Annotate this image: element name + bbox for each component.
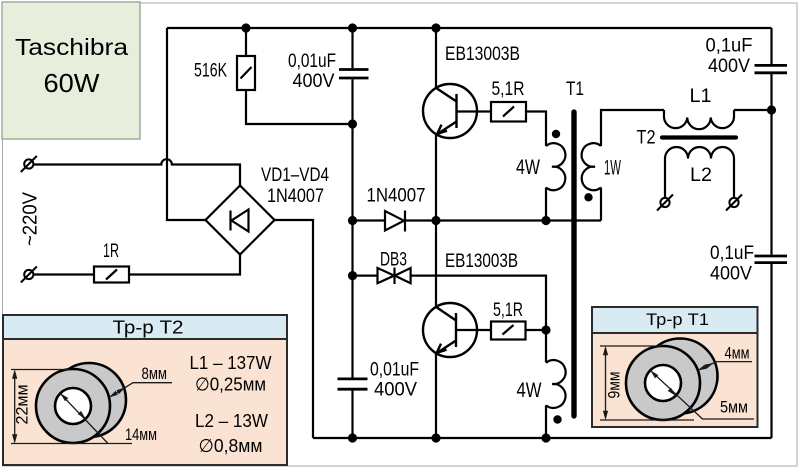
capacitor C2 0,01uF 400V xyxy=(338,379,368,389)
svg-text:Taschibra: Taschibra xyxy=(15,34,129,60)
node dot bottom rail 4W xyxy=(541,433,550,442)
svg-text:~220V: ~220V xyxy=(20,191,42,246)
svg-text:DB3: DB3 xyxy=(380,250,407,271)
wire 1W winding bottom riser xyxy=(600,188,602,221)
transformer T1 winding 4W lower xyxy=(546,360,566,408)
dimension 8mm xyxy=(111,383,173,397)
phasing dot 1W xyxy=(584,193,592,201)
wire node A to Q2 collector xyxy=(435,221,437,307)
terminal output left xyxy=(657,195,673,211)
transformer T1 winding 1W xyxy=(582,143,601,190)
diode VD5 1N4007 xyxy=(385,211,405,232)
svg-text:L1 – 137W: L1 – 137W xyxy=(190,352,272,373)
wire R2 to 4W upper winding xyxy=(526,112,546,147)
svg-text:L2: L2 xyxy=(690,165,712,186)
svg-text:0,01uF: 0,01uF xyxy=(370,360,419,381)
transformer T2 winding L2 xyxy=(665,147,734,198)
wire right column top xyxy=(770,28,772,64)
transistor Q2 EB13003B xyxy=(423,303,477,357)
svg-text:0,01uF: 0,01uF xyxy=(288,51,336,72)
svg-text:400V: 400V xyxy=(708,56,750,77)
svg-text:22мм: 22мм xyxy=(14,385,32,425)
node dot 4W/1W xyxy=(541,216,550,225)
svg-text:4W: 4W xyxy=(516,156,540,179)
svg-text:T2: T2 xyxy=(637,128,656,149)
resistor R4 5,1R xyxy=(491,322,526,340)
svg-text:400V: 400V xyxy=(293,71,335,92)
phasing dot 4W lower xyxy=(553,415,561,423)
transformer T1 core xyxy=(571,112,576,416)
terminal input bottom xyxy=(21,267,37,283)
toroid T2 front ring xyxy=(36,369,110,443)
svg-text:∅0,25мм: ∅0,25мм xyxy=(195,374,266,395)
wire 1W winding top to L1 xyxy=(601,110,664,146)
svg-text:Тр-р Т1: Тр-р Т1 xyxy=(646,311,709,329)
svg-text:400V: 400V xyxy=(710,264,752,285)
svg-text:60W: 60W xyxy=(44,70,100,98)
wire Q1 base to R2 xyxy=(457,110,492,112)
wire left drop to bridge xyxy=(167,28,206,220)
svg-text:T1: T1 xyxy=(566,79,584,100)
wire mid column node A to DB3 node xyxy=(351,221,353,276)
svg-text:1W: 1W xyxy=(604,157,621,180)
wire right column below C4 xyxy=(770,264,772,438)
svg-text:0,1uF: 0,1uF xyxy=(706,36,753,57)
dimension 14mm xyxy=(61,394,109,444)
svg-text:1R: 1R xyxy=(103,241,119,262)
node dot R4/DB3 xyxy=(541,325,550,334)
terminal output right xyxy=(726,195,742,211)
bridge rectifier VD1-VD4 xyxy=(206,186,275,255)
node dot bottom rail mid xyxy=(348,433,357,442)
wire DB3 right to R4 node xyxy=(411,276,546,330)
terminal input top xyxy=(21,156,37,172)
toroid T2 back ring xyxy=(52,363,126,437)
wire R4 to node B xyxy=(526,329,547,331)
wire bridge right to bottom rail xyxy=(275,220,314,438)
node dot top rail C1 xyxy=(348,23,357,32)
svg-text:VD1–VD4: VD1–VD4 xyxy=(261,165,329,186)
node dot L1 midpoint xyxy=(767,105,776,114)
svg-text:∅0,8мм: ∅0,8мм xyxy=(199,435,263,456)
svg-text:8мм: 8мм xyxy=(142,365,168,383)
wire node A to 1W winding xyxy=(436,219,601,221)
resistor R3 1R xyxy=(94,267,129,283)
svg-text:1N4007: 1N4007 xyxy=(367,186,426,207)
wire input top terminal with hop xyxy=(33,159,240,185)
svg-text:400V: 400V xyxy=(374,380,417,401)
svg-text:0,1uF: 0,1uF xyxy=(710,243,754,264)
resistor R2 5,1R xyxy=(491,102,526,122)
wire VD5 cathode to node A xyxy=(405,219,436,221)
svg-text:5,1R: 5,1R xyxy=(492,79,525,100)
dimension 5mm xyxy=(652,372,755,420)
wire Q2 emitter to bottom rail xyxy=(435,353,437,438)
wire top rail xyxy=(167,27,772,29)
wire bottom rail xyxy=(313,437,772,439)
wire mid column DB3 node to C2 xyxy=(351,276,353,379)
dimension 22mm xyxy=(11,370,132,444)
toroid T2 front hole xyxy=(55,388,91,424)
svg-text:EB13003B: EB13003B xyxy=(445,250,518,272)
wire L1 to right column xyxy=(734,109,772,111)
node dot 516K loop xyxy=(348,119,357,128)
wire mid column top xyxy=(351,28,353,68)
wire 4W lower winding to bottom rail xyxy=(545,405,547,438)
wire 516K top feed xyxy=(245,28,247,56)
node dot top rail 516K xyxy=(241,23,250,32)
node dot DB3 xyxy=(348,271,357,280)
capacitor C1 0,01uF 400V xyxy=(339,70,369,79)
wire 4W upper winding to node A xyxy=(545,188,547,221)
svg-text:L2 – 13W: L2 – 13W xyxy=(195,410,268,431)
wire 516K bottom loop xyxy=(246,90,353,124)
node dot bottom rail Q2 xyxy=(431,433,440,442)
svg-text:516K: 516K xyxy=(194,61,227,82)
node dot mid VD5 xyxy=(348,216,357,225)
svg-text:4мм: 4мм xyxy=(725,345,750,363)
svg-text:5мм: 5мм xyxy=(720,399,748,417)
toroid T1 front hole xyxy=(645,365,681,401)
info box Tp-p T1 xyxy=(592,307,758,427)
node dot A emitter/diode xyxy=(431,216,440,225)
wire Q1 collector xyxy=(435,28,437,88)
wire right column between C3 and L1 node xyxy=(770,74,772,255)
info box Tp-p T2 xyxy=(3,315,287,465)
title box Taschibra 60W xyxy=(2,2,140,139)
toroid T1 back ring xyxy=(643,339,718,414)
transformer T1 winding 4W upper xyxy=(546,143,565,190)
transistor Q1 EB13003B xyxy=(423,84,477,138)
svg-text:EB13003B: EB13003B xyxy=(445,43,520,65)
wire mid column C2 to bottom rail xyxy=(351,390,353,438)
svg-text:1N4007: 1N4007 xyxy=(267,186,324,207)
wire 1R to bridge bottom xyxy=(129,255,240,275)
toroid T1 front ring xyxy=(626,346,700,420)
wire input bottom terminal to 1R xyxy=(33,273,94,275)
wire mid column between C1 and node A xyxy=(351,79,353,220)
resistor R1 516K xyxy=(237,56,255,90)
diac DB3 xyxy=(378,268,411,285)
transformer T2 core xyxy=(662,135,736,139)
wire DB3 left xyxy=(353,275,378,277)
svg-text:14мм: 14мм xyxy=(125,426,157,444)
svg-text:Тр-р Т2: Тр-р Т2 xyxy=(113,317,184,338)
wire node B to 4W lower winding xyxy=(545,330,547,363)
wire Q2 base to R4 xyxy=(456,329,491,331)
dimension 4mm xyxy=(699,362,752,370)
svg-text:9мм: 9мм xyxy=(606,372,624,399)
svg-text:L1: L1 xyxy=(690,86,712,107)
transformer T2 winding L1 xyxy=(664,110,734,129)
svg-text:5,1R: 5,1R xyxy=(493,300,523,321)
wire VD5 anode xyxy=(353,219,386,221)
wire Q1 emitter down to node A xyxy=(435,134,437,220)
capacitor C3 0,1uF 400V top xyxy=(755,65,788,72)
svg-text:4W: 4W xyxy=(517,379,542,402)
node dot top rail Q1 xyxy=(431,23,440,32)
phasing dot 4W upper xyxy=(552,130,560,138)
capacitor C4 0,1uF 400V bottom xyxy=(755,256,788,263)
dimension 9mm xyxy=(600,346,694,420)
